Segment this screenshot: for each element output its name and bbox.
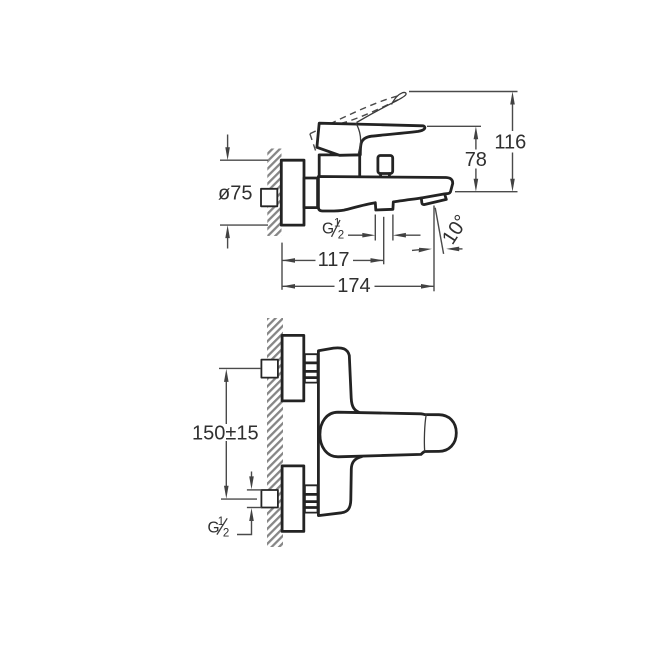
svg-text:150±15: 150±15 xyxy=(192,422,259,444)
lever (bottom view) xyxy=(320,412,456,457)
150+-15 dimension xyxy=(225,380,227,424)
extension line flange bottom (o75) xyxy=(220,224,268,226)
thin solid raised-lever tip hook and lower edge xyxy=(357,92,407,122)
down arrow to pipe top xyxy=(251,472,253,479)
extension line top (raised handle height) xyxy=(409,91,518,93)
svg-text:2: 2 xyxy=(338,229,344,241)
body + spout silhouette (side view) xyxy=(318,177,452,212)
78 dimension xyxy=(475,138,477,150)
10 deg left arrow xyxy=(412,249,421,252)
svg-text:117: 117 xyxy=(318,249,350,271)
G1/2 left arrow xyxy=(348,234,364,236)
G1/2 pipe top edge mark xyxy=(247,489,262,491)
bottom connector stack xyxy=(305,485,318,512)
extension line G1/2 right edge xyxy=(392,215,394,241)
10 deg angled line xyxy=(435,208,443,254)
top connector stack xyxy=(305,354,318,382)
knob neck xyxy=(379,174,382,177)
label G1/2 (bottom view) xyxy=(208,516,230,539)
dashed raised handle left lower segment xyxy=(310,134,316,152)
dashed raised handle underside xyxy=(342,100,398,123)
10 deg reference vertical line xyxy=(433,206,435,292)
117 dimension xyxy=(282,259,316,261)
inlet pipe square (side view) xyxy=(261,189,277,207)
extension line bottom pipe center xyxy=(221,498,257,500)
outlet protrusion top edge xyxy=(421,194,444,198)
10 deg right arrow xyxy=(457,248,463,250)
wall connector (side view) xyxy=(304,178,318,208)
valve housing under handle xyxy=(319,155,360,178)
handle (solid, side view) xyxy=(317,123,425,155)
label G1/2 (side view) xyxy=(322,218,344,242)
bottom flange (bottom view) xyxy=(282,466,304,532)
wall hatch (side view) xyxy=(267,149,281,237)
up arrow to pipe bottom + leader xyxy=(249,508,254,521)
body silhouette (bottom view) xyxy=(318,348,362,516)
svg-text:1: 1 xyxy=(334,218,340,230)
handle cap/lever seam (thin) xyxy=(356,123,361,153)
extension line handle top xyxy=(427,125,481,127)
svg-text:174: 174 xyxy=(337,275,370,297)
flange (side view) xyxy=(281,160,304,225)
top flange (bottom view) xyxy=(282,335,304,401)
dashed raised handle outline xyxy=(310,96,398,134)
extension line flange top (o75) xyxy=(220,159,268,161)
116 dimension xyxy=(512,103,514,131)
extension line G1/2 center xyxy=(383,217,385,264)
174 dimension xyxy=(282,285,335,287)
extension line top pipe center xyxy=(219,367,261,369)
diverter knob xyxy=(378,156,393,174)
inlet pipe square bottom (bottom view) xyxy=(261,490,278,508)
wall hatch (bottom view) xyxy=(267,318,283,547)
G1/2 right arrow xyxy=(404,234,421,236)
svg-text:ø75: ø75 xyxy=(218,182,252,204)
svg-text:2: 2 xyxy=(223,527,229,539)
svg-text:116: 116 xyxy=(494,132,526,154)
G1/2 pipe bottom edge mark xyxy=(247,507,262,509)
extension line spout bottom xyxy=(455,191,518,193)
svg-text:78: 78 xyxy=(465,149,487,171)
lever tip seam xyxy=(424,414,426,451)
o75 top arrow (down) xyxy=(227,135,229,150)
inlet pipe square top (bottom view) xyxy=(261,360,278,378)
extension line G1/2 left edge xyxy=(374,215,376,241)
wall face extension line (below flange) xyxy=(281,243,283,290)
o75 bottom arrow (up) xyxy=(227,236,229,248)
